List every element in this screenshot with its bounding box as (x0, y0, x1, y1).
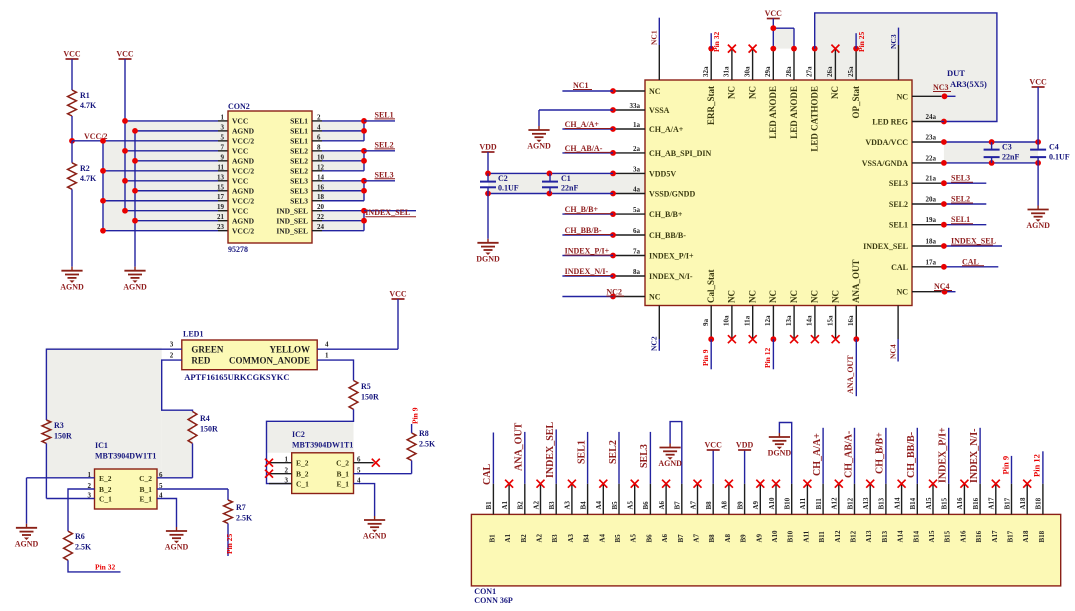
svg-text:SEL1: SEL1 (290, 127, 308, 136)
svg-text:SEL1: SEL1 (290, 137, 308, 146)
svg-text:NC4: NC4 (934, 282, 950, 291)
svg-text:23: 23 (217, 223, 225, 231)
capacitor C1 (549, 173, 551, 181)
svg-text:A15: A15 (925, 497, 933, 510)
wire VSSA 33a to AGND (539, 109, 613, 111)
svg-text:R4: R4 (200, 414, 210, 423)
svg-text:NC1: NC1 (650, 30, 659, 45)
svg-text:CAL: CAL (891, 263, 908, 272)
svg-text:VCC: VCC (232, 207, 248, 216)
svg-text:B5: B5 (611, 501, 619, 510)
transistor IC1 MBT3904DW1T1 body (95, 469, 158, 509)
wire SEL3 group vertical (363, 181, 365, 201)
svg-text:B_2: B_2 (99, 485, 112, 494)
svg-text:33a: 33a (630, 102, 641, 110)
svg-text:DGND: DGND (768, 449, 792, 458)
svg-text:0.1UF: 0.1UF (498, 184, 519, 193)
wire B1 / net label CAL (492, 433, 494, 484)
CON1 pin B4 (587, 484, 589, 515)
svg-text:C_1: C_1 (296, 480, 309, 489)
svg-text:25a: 25a (847, 66, 855, 77)
svg-text:14: 14 (317, 173, 325, 181)
svg-text:17: 17 (217, 193, 225, 201)
svg-text:A16: A16 (956, 497, 964, 510)
svg-text:5: 5 (221, 133, 225, 141)
CON1 pin A17 (995, 484, 997, 515)
svg-text:2: 2 (317, 113, 321, 121)
svg-text:13: 13 (217, 173, 225, 181)
svg-text:NC4: NC4 (889, 344, 898, 359)
power port VCC (CON2 bus) (119, 58, 132, 60)
CON1 pin B7 (681, 484, 683, 515)
svg-text:0.1UF: 0.1UF (1049, 153, 1070, 162)
no-connect 11a (749, 335, 757, 343)
svg-text:CH_B/B+: CH_B/B+ (875, 432, 886, 474)
svg-text:26a: 26a (826, 66, 834, 77)
svg-text:AGND: AGND (363, 532, 387, 541)
resistor R7 (227, 489, 229, 500)
svg-text:18: 18 (317, 193, 325, 201)
svg-text:22a: 22a (926, 154, 937, 162)
svg-text:A18: A18 (1022, 530, 1030, 543)
DUT left pin 6a (CH_BB/B-) (613, 234, 645, 236)
svg-text:4: 4 (317, 123, 321, 131)
svg-text:AGND: AGND (165, 543, 189, 552)
svg-text:C3: C3 (1002, 143, 1012, 152)
net label NC2 / wire (bottom-left NC) (562, 296, 613, 298)
svg-text:3: 3 (221, 123, 225, 131)
wire net SEL1 (364, 120, 395, 122)
svg-text:RED: RED (191, 356, 211, 366)
svg-text:11: 11 (217, 163, 224, 171)
svg-text:IND_SEL: IND_SEL (276, 226, 308, 235)
svg-text:31a: 31a (723, 66, 731, 77)
svg-text:R6: R6 (75, 532, 85, 541)
CON1 pin A4 (602, 484, 604, 515)
svg-text:NC: NC (768, 290, 778, 303)
wire VCC/2 horizontal from divider (72, 140, 103, 142)
svg-text:B1: B1 (485, 501, 493, 510)
svg-text:ERR_Stat: ERR_Stat (706, 86, 716, 125)
svg-text:2.5K: 2.5K (419, 440, 436, 449)
svg-text:CON2: CON2 (228, 102, 250, 111)
svg-text:B13: B13 (881, 530, 889, 542)
wire B18 / net label Pin 12 (1042, 451, 1044, 483)
svg-text:19: 19 (217, 203, 225, 211)
wire CON2 left pin row 15 (135, 190, 218, 192)
DUT bottom pin 12a (NC) (772, 306, 774, 340)
wire B2 / net label ANA_OUT (524, 432, 526, 484)
svg-text:LED ANODE: LED ANODE (768, 86, 778, 139)
DUT corner pin NC2 (bottom-left) (658, 306, 660, 340)
svg-text:Pin 9: Pin 9 (1000, 456, 1010, 475)
wire CON2 left pin row 23 (103, 230, 218, 232)
svg-text:A2: A2 (532, 500, 540, 509)
svg-text:NC: NC (830, 290, 840, 303)
power port VCC (LED anodes) (767, 18, 780, 20)
DUT bottom pin 11a (NC) (752, 306, 754, 340)
connector CON2 body (228, 111, 312, 243)
svg-text:MBT3904DW1T1: MBT3904DW1T1 (292, 441, 353, 450)
svg-text:NC: NC (727, 86, 737, 99)
no-connect 31a (728, 45, 736, 53)
svg-text:19a: 19a (926, 216, 937, 224)
svg-text:A5: A5 (630, 533, 638, 542)
connector CON1 body (471, 514, 1060, 586)
svg-text:A1: A1 (504, 533, 512, 542)
CON1 pin A11 (806, 484, 808, 515)
svg-text:YELLOW: YELLOW (269, 345, 310, 355)
svg-text:C_2: C_2 (336, 459, 349, 468)
power port VCC (LED1) (392, 298, 405, 300)
svg-text:18a: 18a (926, 238, 937, 246)
wire CON2 left pin row 9 (135, 160, 218, 162)
svg-text:R7: R7 (236, 503, 246, 512)
svg-text:VCC/2: VCC/2 (232, 137, 254, 146)
ground AGND (IC1 pin4) (176, 527, 178, 531)
svg-text:NC: NC (649, 87, 661, 96)
wire R8 to Pin 9 tag (411, 424, 413, 433)
wire CON2 left pin row 1 (125, 120, 218, 122)
no-connect 15a (832, 335, 840, 343)
CON1 pin A2 (540, 484, 542, 515)
svg-text:6: 6 (317, 133, 321, 141)
svg-text:B14: B14 (909, 497, 917, 509)
wire/net label SEL1 (right) (941, 224, 986, 226)
svg-text:VSSA/GNDA: VSSA/GNDA (862, 159, 908, 168)
wire VDDA/VCC 23a rail (941, 141, 1038, 143)
svg-text:A17: A17 (991, 530, 999, 543)
svg-text:10: 10 (317, 153, 325, 161)
svg-text:NC3: NC3 (933, 83, 949, 92)
svg-text:B_2: B_2 (296, 470, 309, 479)
wire net SEL2 (364, 150, 395, 152)
CON1 pin B9 (744, 484, 746, 515)
svg-text:A16: A16 (959, 530, 967, 543)
svg-text:VCC: VCC (116, 50, 134, 59)
svg-text:OP_Stat: OP_Stat (851, 86, 861, 119)
wire CON2 left pin row 3 (135, 130, 218, 132)
svg-text:95278: 95278 (228, 245, 248, 254)
wire B11 / net label CH_A/A+ (822, 428, 824, 484)
svg-text:B_1: B_1 (139, 485, 152, 494)
wire B13 / net label CH_B/B+ (885, 428, 887, 484)
svg-text:8a: 8a (633, 268, 641, 276)
CON1 pin A14 (901, 484, 903, 515)
svg-text:C_2: C_2 (139, 474, 152, 483)
ground AGND (IC1 pin1) (26, 524, 28, 528)
wire 22a to AGND (right) (1037, 163, 1039, 206)
svg-text:28a: 28a (785, 66, 793, 77)
svg-text:E_1: E_1 (139, 495, 152, 504)
svg-text:A9: A9 (752, 500, 760, 509)
resistor R4 (188, 412, 197, 444)
wire B5 / net label SEL2 (618, 432, 620, 484)
svg-text:SEL2: SEL2 (290, 167, 308, 176)
svg-text:15a: 15a (826, 315, 834, 326)
svg-text:B15: B15 (944, 530, 952, 542)
svg-text:AGND: AGND (15, 540, 39, 549)
svg-text:A8: A8 (721, 500, 729, 509)
shaded wire-loop region VCC bracket (DUT top) (773, 28, 794, 48)
wire R4 to IC1 pin 6 (192, 443, 194, 477)
svg-text:A4: A4 (598, 533, 606, 542)
svg-text:B3: B3 (548, 501, 556, 510)
svg-text:Pin 12: Pin 12 (1032, 454, 1042, 477)
DUT top pin 27a (LED CATHODE) (814, 49, 816, 80)
svg-text:IND_SEL: IND_SEL (276, 207, 308, 216)
svg-text:A2: A2 (536, 533, 544, 542)
wire B6 / net label SEL3 (649, 432, 651, 484)
wire 4a to DGND (487, 194, 489, 239)
wire CON2 right pin row 18 (312, 200, 322, 202)
CON1 pin B10 (791, 484, 793, 515)
svg-text:2: 2 (170, 352, 174, 360)
wire R7 to Pin 25 tag (227, 523, 229, 556)
wire CON2 right pin row 12 (312, 170, 322, 172)
wire B16 / net label INDEX_N/I- (979, 428, 981, 484)
DUT corner pin NC1 (top-left) (658, 45, 660, 80)
resistor R8 (407, 433, 416, 461)
CON1 pin B8 (712, 484, 714, 515)
svg-text:CAL: CAL (962, 257, 979, 266)
CON1 pin A15 (932, 484, 934, 515)
svg-text:NC: NC (810, 290, 820, 303)
svg-text:VCC: VCC (705, 441, 723, 450)
svg-text:MBT3904DW1T1: MBT3904DW1T1 (95, 452, 156, 461)
ground AGND (below R2) (71, 267, 73, 271)
svg-text:VCC: VCC (232, 117, 248, 126)
svg-text:CH_B/B+: CH_B/B+ (565, 205, 599, 214)
svg-text:AR3(5X5): AR3(5X5) (950, 79, 987, 89)
svg-text:AGND: AGND (658, 459, 682, 468)
wire CON2 right pin row 2 (312, 120, 322, 122)
wire net SEL3 (364, 180, 395, 182)
CON1 pin A18 (1026, 484, 1028, 515)
svg-text:A8: A8 (724, 533, 732, 542)
svg-text:17a: 17a (926, 258, 937, 266)
wire VSSA/GNDA 22a rail (941, 162, 1038, 164)
diode LED1 body (182, 340, 317, 370)
wire B9 to VDD (744, 450, 746, 484)
svg-text:B17: B17 (1007, 530, 1015, 542)
svg-text:R8: R8 (419, 429, 429, 438)
svg-text:A12: A12 (834, 530, 842, 543)
wire AGND bus vertical (134, 131, 136, 267)
no-connect 26a (831, 45, 839, 53)
no-connect 14a (811, 335, 819, 343)
svg-text:A14: A14 (893, 497, 901, 510)
DUT right pin 24a (LED REG) (912, 121, 941, 123)
svg-text:VCC/2: VCC/2 (232, 197, 254, 206)
DUT right pin NC (NC) (912, 291, 941, 293)
DUT right pin 21a (SEL3) (912, 182, 941, 184)
svg-text:VCC: VCC (1029, 78, 1047, 87)
DUT bottom pin 14a (NC) (814, 306, 816, 340)
DUT top pin 25a (OP_Stat) (855, 49, 857, 80)
wire CON2 right pin row 22 (312, 220, 322, 222)
CON1 pin A3 (571, 484, 573, 515)
svg-text:E_2: E_2 (296, 459, 309, 468)
svg-text:20: 20 (317, 203, 325, 211)
wire B3 / net label INDEX_SEL (555, 429, 557, 483)
wire/net label CH_AB/A- (562, 152, 613, 154)
DUT bottom pin 16a (ANA_OUT) (855, 306, 857, 340)
svg-text:A7: A7 (689, 500, 697, 509)
svg-text:2.5K: 2.5K (236, 514, 253, 523)
wire R1 to VCC/2 node (71, 116, 73, 141)
CON1 pin B14 (916, 484, 918, 515)
wire B7 to AGND bracket (670, 422, 682, 484)
svg-text:2.5K: 2.5K (75, 543, 92, 552)
svg-text:2a: 2a (633, 145, 641, 153)
svg-text:DGND: DGND (476, 255, 500, 264)
svg-text:CONN 36P: CONN 36P (474, 596, 513, 605)
wire pin 25a stub up / Pin 25 tag (853, 46, 859, 52)
wire pin 32a stub up / Pin 32 tag (708, 46, 714, 52)
svg-text:SEL2: SEL2 (375, 140, 394, 149)
wire INDEX_SEL group vertical (363, 211, 365, 231)
CON1 pin A6 (665, 484, 667, 515)
svg-text:NC: NC (896, 92, 908, 101)
svg-text:IC1: IC1 (95, 441, 108, 450)
svg-text:SEL1: SEL1 (290, 117, 308, 126)
capacitor C3 (991, 142, 993, 150)
CON1 pin B17 (1011, 484, 1013, 515)
shaded wire-loop region around R3/R4/IC1 (46, 348, 161, 478)
svg-text:CH_BB/B-: CH_BB/B- (565, 226, 602, 235)
svg-text:SEL2: SEL2 (290, 147, 308, 156)
wire/net label SEL2 (right) (941, 203, 986, 205)
svg-text:R3: R3 (54, 421, 64, 430)
svg-text:VCC: VCC (232, 147, 248, 156)
svg-text:22: 22 (317, 213, 325, 221)
svg-text:B5: B5 (614, 534, 622, 543)
svg-text:22nF: 22nF (561, 184, 578, 193)
wire VCC bus vertical (124, 59, 126, 211)
wire CON2 right pin row 20 (312, 210, 322, 212)
svg-text:SEL1: SEL1 (576, 440, 587, 464)
svg-text:NC2: NC2 (606, 288, 622, 297)
wire CON2 left pin row 13 (125, 180, 218, 182)
op-amp U1 DUT AR3(5X5) body (645, 80, 912, 306)
no-connect 30a (749, 45, 757, 53)
svg-text:B2: B2 (520, 534, 528, 543)
svg-text:SEL2: SEL2 (608, 440, 619, 464)
svg-text:24: 24 (317, 223, 325, 231)
svg-text:9a: 9a (702, 319, 710, 327)
svg-text:CH_A/A+: CH_A/A+ (565, 120, 600, 129)
wire R5 to IC2 pin 3 (267, 409, 354, 483)
CON1 pin A10 (775, 484, 777, 515)
svg-text:A11: A11 (799, 497, 807, 509)
svg-text:4.7K: 4.7K (80, 174, 97, 183)
svg-text:21a: 21a (926, 175, 937, 183)
resistor R6 (67, 499, 69, 532)
svg-text:Pin 25: Pin 25 (857, 32, 866, 52)
node VCC/2 (69, 138, 75, 144)
svg-text:6a: 6a (633, 227, 641, 235)
svg-text:A7: A7 (693, 533, 701, 542)
svg-text:VCC: VCC (232, 177, 248, 186)
svg-text:14a: 14a (806, 315, 814, 326)
svg-text:NC: NC (789, 290, 799, 303)
wire B8 to VCC (712, 450, 714, 484)
DUT right pin 23a (VDDA/VCC) (912, 141, 941, 143)
svg-text:VDD: VDD (736, 441, 754, 450)
svg-text:29a: 29a (764, 66, 772, 77)
svg-text:INDEX_P/I+: INDEX_P/I+ (938, 427, 949, 483)
wire CON2 left pin row 21 (135, 220, 218, 222)
svg-text:Pin 12: Pin 12 (763, 348, 772, 368)
svg-text:C_1: C_1 (99, 495, 112, 504)
wire CON2 left pin row 5 (103, 140, 218, 142)
svg-text:LED CATHODE: LED CATHODE (810, 86, 820, 152)
svg-text:VCC: VCC (765, 9, 783, 18)
svg-text:B4: B4 (579, 501, 587, 510)
svg-text:B18: B18 (1035, 497, 1043, 509)
svg-text:A1: A1 (501, 500, 509, 509)
wire CON2 left pin row 17 (103, 200, 218, 202)
svg-text:1a: 1a (633, 121, 641, 129)
svg-text:INDEX_SEL: INDEX_SEL (365, 208, 410, 217)
wire SEL1 group vertical (363, 121, 365, 141)
DUT right pin 20a (SEL2) (912, 203, 941, 205)
ground AGND (right) (1037, 206, 1039, 210)
svg-text:NC: NC (830, 86, 840, 99)
DUT right pin 17a (CAL) (912, 266, 941, 268)
CON1 pin B15 (948, 484, 950, 515)
svg-text:A3: A3 (567, 533, 575, 542)
svg-text:CH_AB_SPI_DIN: CH_AB_SPI_DIN (649, 149, 711, 158)
svg-text:AGND: AGND (60, 282, 84, 291)
svg-text:4a: 4a (633, 186, 641, 194)
svg-text:CH_AB/A-: CH_AB/A- (843, 431, 854, 478)
svg-text:B17: B17 (1003, 497, 1011, 509)
svg-text:8: 8 (317, 143, 321, 151)
CON1 pin A16 (963, 484, 965, 515)
DUT top pin 32a (ERR_Stat) (710, 49, 712, 80)
svg-text:AGND: AGND (123, 282, 147, 291)
CON1 pin A1 (508, 484, 510, 515)
wire CON2 right pin row 6 (312, 140, 322, 142)
wire VSSD/GNDD rail (4a) (488, 193, 613, 195)
svg-text:LED REG: LED REG (872, 118, 908, 127)
DUT corner pin NC4 (bottom-right) (897, 306, 899, 340)
wire VCC/2 bus vertical (102, 141, 104, 231)
svg-text:B18: B18 (1038, 530, 1046, 542)
no-connect 10a (728, 335, 736, 343)
svg-text:A6: A6 (658, 500, 666, 509)
svg-text:SEL2: SEL2 (290, 157, 308, 166)
svg-text:CH_BB/B-: CH_BB/B- (649, 231, 686, 240)
svg-text:16a: 16a (847, 315, 855, 326)
CON1 pin B5 (618, 484, 620, 515)
svg-text:INDEX_N/I-: INDEX_N/I- (969, 429, 980, 483)
svg-text:VDD5V: VDD5V (649, 169, 676, 178)
svg-text:12a: 12a (764, 315, 772, 326)
svg-text:21: 21 (217, 213, 225, 221)
resistor R3 (42, 420, 51, 443)
net label NC1 / wire (562, 90, 613, 92)
svg-text:B16: B16 (972, 497, 980, 509)
DUT right pin 18a (INDEX_SEL) (912, 245, 941, 247)
svg-text:E_2: E_2 (99, 474, 112, 483)
svg-text:APTF16165URKCGKSYKC: APTF16165URKCGKSYKC (184, 372, 289, 382)
CON1 pin B2 (524, 484, 526, 515)
CON1 pin A9 (759, 484, 761, 515)
svg-text:150R: 150R (361, 393, 379, 402)
